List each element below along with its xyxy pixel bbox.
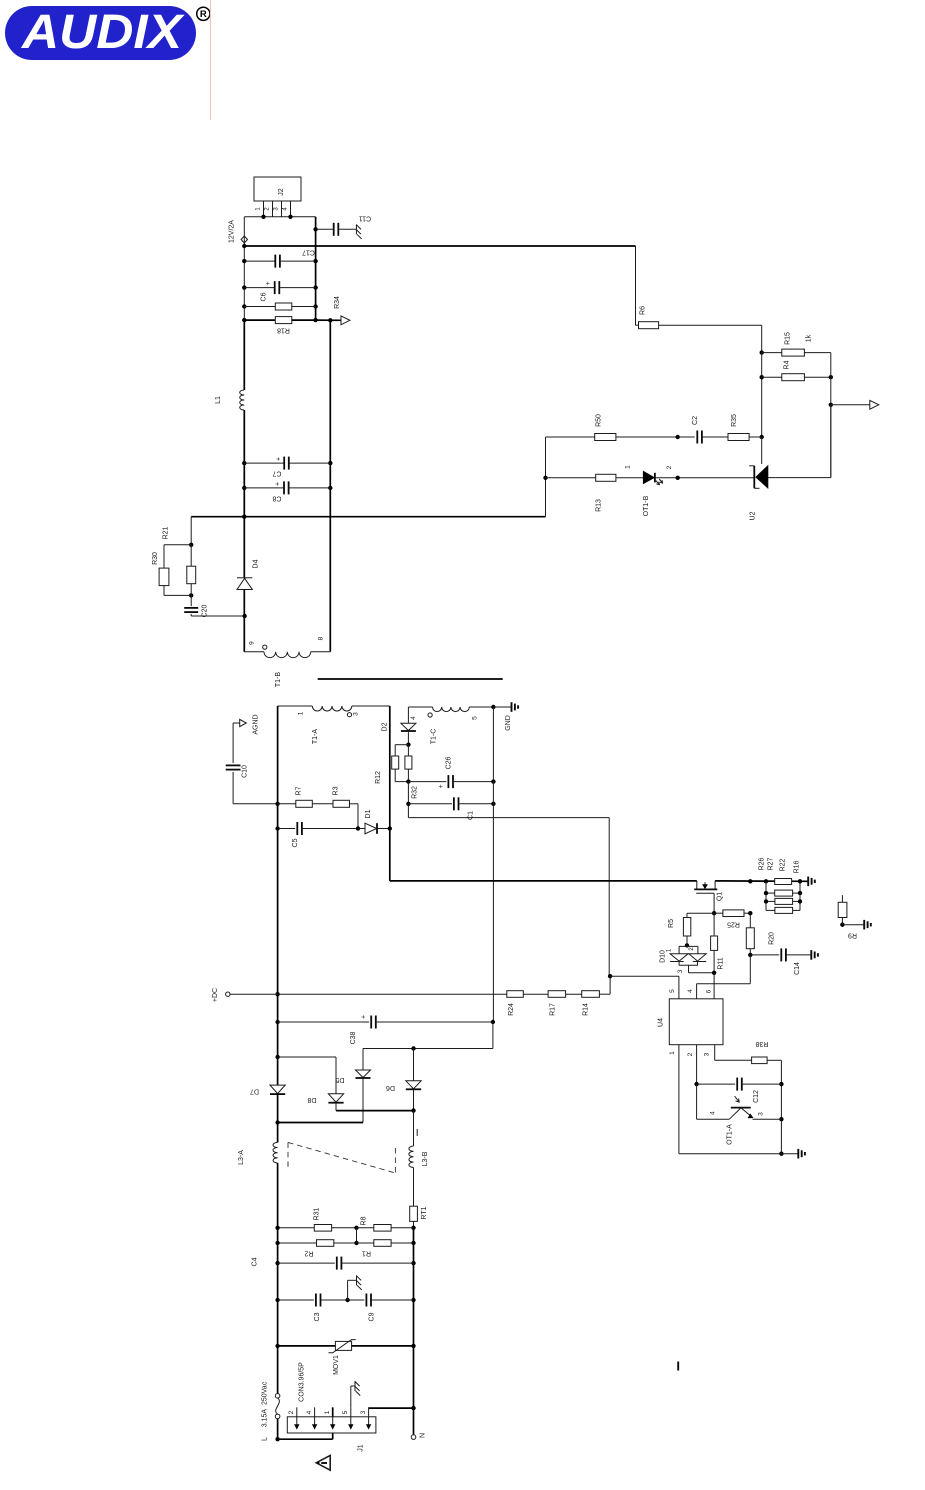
J1 pin 4 <box>306 1407 317 1429</box>
isolation barrier line <box>318 678 503 680</box>
svg-text:U4: U4 <box>658 1018 665 1027</box>
svg-text:C9: C9 <box>369 1312 376 1321</box>
net label 12V/2A <box>229 220 236 243</box>
capacitor C17 <box>244 249 315 268</box>
wire +DC row <box>230 993 507 995</box>
resistor R24 <box>507 991 524 1016</box>
OT1-B pin 1 label <box>625 465 632 469</box>
svg-text:5: 5 <box>471 716 478 720</box>
thermistor RT1 <box>410 1206 428 1230</box>
svg-text:R4: R4 <box>784 360 791 369</box>
wire left output rail upper <box>242 217 246 390</box>
wire R50 left vertical <box>543 437 547 517</box>
resistor R13 <box>546 474 644 512</box>
node L terminal <box>262 1437 269 1441</box>
earth ground at C3/C9 <box>357 1275 362 1290</box>
diode D4 <box>237 559 260 589</box>
capacitor C9 <box>348 1294 414 1322</box>
svg-text:C5: C5 <box>292 838 299 847</box>
diode D1 <box>358 809 392 833</box>
wire D4 to T1-B pin 9 <box>243 590 245 652</box>
transformer winding T1-A <box>278 706 390 744</box>
svg-text:R2: R2 <box>304 1250 313 1257</box>
svg-text:5: 5 <box>342 1410 349 1414</box>
resistor R7 <box>278 786 313 807</box>
varistor MOV1 <box>278 1340 414 1375</box>
svg-text:T1-A: T1-A <box>312 729 319 745</box>
wire gate RC branch <box>687 913 714 917</box>
ground at U4 pin1 <box>798 1149 805 1159</box>
svg-text:J1: J1 <box>358 1444 365 1452</box>
J1 pin 2 <box>288 1407 299 1429</box>
T1-B pin 9 label <box>249 641 256 645</box>
J1 pin 5 <box>342 1407 353 1429</box>
faint page fold line <box>210 0 212 120</box>
wire R9 to ground <box>842 924 864 926</box>
wire T1-C to GND <box>493 706 511 708</box>
svg-text:RT1: RT1 <box>421 1206 428 1219</box>
wire to off-page arrow <box>831 404 870 406</box>
svg-text:D10: D10 <box>660 950 667 963</box>
resistor R6 <box>636 306 659 329</box>
svg-text:2: 2 <box>288 1410 295 1414</box>
svg-text:D6: D6 <box>386 1084 395 1091</box>
inductor L1 <box>215 390 244 410</box>
svg-text:OT1-A: OT1-A <box>727 1124 734 1145</box>
diode D2 <box>382 707 416 747</box>
D10 pin 3 label <box>678 969 684 973</box>
diode D7 <box>250 1085 285 1094</box>
svg-text:R20: R20 <box>769 932 776 945</box>
svg-text:D7: D7 <box>250 1088 259 1095</box>
wire left rail EMI <box>275 1228 279 1394</box>
wire sense node vertical <box>829 353 833 478</box>
svg-text:1: 1 <box>669 1051 676 1055</box>
capacitor C26 <box>408 756 495 788</box>
OT1-A pin 3 label <box>758 1112 765 1116</box>
resistor R50 <box>546 414 680 441</box>
svg-text:C6: C6 <box>261 292 268 301</box>
svg-text:C17: C17 <box>302 249 315 256</box>
wire Y-cap ground stub <box>348 1280 357 1300</box>
resistor R32 <box>405 745 419 799</box>
wire secondary return vertical <box>328 320 332 652</box>
svg-text:D8: D8 <box>307 1096 316 1103</box>
svg-text:R17: R17 <box>550 1003 557 1016</box>
svg-text:R6: R6 <box>640 306 647 315</box>
wire fuse to L terminal <box>275 1419 279 1442</box>
capacitor C38 <box>278 1015 495 1044</box>
capacitor C12 <box>697 1078 782 1103</box>
svg-text:R11: R11 <box>718 957 725 969</box>
svg-text:R8: R8 <box>361 1216 368 1225</box>
T1-A pin 3 label <box>353 712 360 716</box>
wire ground return long <box>191 516 545 518</box>
shunt regulator U2 <box>749 466 768 521</box>
svg-text:1: 1 <box>625 465 632 469</box>
capacitor C2 <box>678 416 728 444</box>
svg-text:5: 5 <box>669 989 676 993</box>
wire drain line <box>390 880 697 882</box>
wire right output rail <box>313 217 317 322</box>
U4 pin 6 label <box>705 989 712 993</box>
wire T1-A pin3 to drain <box>389 706 391 881</box>
svg-text:R15: R15 <box>785 332 792 345</box>
svg-text:C20: C20 <box>202 604 209 617</box>
fuse F1 3.15A <box>262 1381 280 1427</box>
earth ground at C11 <box>356 224 361 239</box>
svg-text:AUDIX: AUDIX <box>21 6 185 59</box>
resistor R3 <box>312 786 358 828</box>
svg-text:R21: R21 <box>163 526 170 539</box>
svg-text:3: 3 <box>360 1410 367 1414</box>
svg-text:D4: D4 <box>253 559 260 568</box>
node N terminal <box>411 1433 426 1439</box>
svg-text:3: 3 <box>758 1112 765 1116</box>
resistor R8 <box>357 1216 414 1231</box>
svg-text:R30: R30 <box>152 552 159 565</box>
capacitor C14 <box>750 948 811 975</box>
wire primary rail <box>275 706 279 1085</box>
capacitor C10 <box>226 723 249 804</box>
R15 value 1k <box>806 334 813 342</box>
svg-text:T1-B: T1-B <box>275 672 282 688</box>
wire R6 to divider <box>659 325 764 355</box>
T1-C pin 4 label <box>410 716 417 720</box>
svg-text:OT1-B: OT1-B <box>643 495 650 516</box>
wire Q1 gate <box>712 893 716 915</box>
AUDIX logo <box>5 6 196 60</box>
T1-A pin 1 label <box>298 711 305 715</box>
svg-text:C14: C14 <box>794 962 801 975</box>
transformer winding T1-B <box>244 652 330 687</box>
wire C10 to rail <box>233 803 278 805</box>
wire R24-R17 <box>523 993 548 995</box>
wire R17-R14 <box>566 993 582 995</box>
capacitor C1 <box>408 797 495 820</box>
U4 pin 2 label <box>687 1052 694 1056</box>
wire C20 to D4 node <box>191 614 247 618</box>
svg-text:+: + <box>361 1015 368 1019</box>
stray mark <box>677 1362 679 1371</box>
svg-text:C1: C1 <box>468 811 475 820</box>
inductor L3-B <box>409 1111 429 1207</box>
wire U4 pin6 <box>713 973 715 999</box>
wire R38 down <box>767 1060 784 1156</box>
resistor R1 <box>357 1240 416 1257</box>
svg-text:Q1: Q1 <box>717 892 724 901</box>
wire R21 top node <box>189 517 193 547</box>
warning triangle <box>316 1455 330 1470</box>
svg-text:GND: GND <box>505 715 512 731</box>
off-page arrow feedback <box>870 400 879 409</box>
svg-text:R3: R3 <box>333 786 340 795</box>
svg-text:N: N <box>420 1433 427 1438</box>
svg-text:4: 4 <box>306 1410 313 1414</box>
T1-C polarity dot <box>428 713 432 717</box>
off-page arrow AGND <box>233 714 259 734</box>
wire 12V feedback line <box>244 245 635 247</box>
capacitor C6 <box>244 281 315 301</box>
logo registered trademark symbol <box>197 7 210 20</box>
resistor R16 <box>766 860 801 913</box>
wire aux supply drop <box>608 818 610 977</box>
svg-text:1: 1 <box>298 711 305 715</box>
svg-text:4: 4 <box>710 1111 717 1115</box>
resistor R21 <box>163 526 196 595</box>
resistor R18 <box>244 317 315 334</box>
node +DC terminal <box>212 988 230 1002</box>
J1 pin 3 <box>360 1407 371 1429</box>
capacitor C7 <box>244 457 330 477</box>
resistor R31 <box>275 1207 358 1231</box>
capacitor C4 <box>252 1257 414 1270</box>
svg-text:R9: R9 <box>848 932 857 939</box>
svg-text:L1: L1 <box>215 396 222 404</box>
T1-C pin 5 label <box>471 716 478 720</box>
wire R18 to arrow <box>316 318 341 322</box>
svg-text:R14: R14 <box>583 1003 590 1016</box>
wire rail to D4 <box>243 517 245 578</box>
svg-text:6: 6 <box>705 989 712 993</box>
D10 pin 1 label <box>667 948 673 952</box>
svg-text:R18: R18 <box>277 327 290 334</box>
svg-text:R35: R35 <box>731 414 738 427</box>
wire bank right vertical <box>798 879 802 910</box>
diode D5 <box>335 1049 370 1123</box>
svg-text:T1-C: T1-C <box>431 729 438 745</box>
svg-text:+: + <box>275 482 282 486</box>
resistor R4 <box>762 360 833 380</box>
choke core dashes <box>288 1142 395 1173</box>
svg-text:R5: R5 <box>668 919 675 928</box>
svg-text:4: 4 <box>687 989 694 993</box>
svg-text:3: 3 <box>353 712 360 716</box>
wire R30 branch top <box>164 545 191 568</box>
resistor R11 <box>711 913 725 975</box>
svg-text:+: + <box>265 281 272 285</box>
svg-text:C38: C38 <box>350 1031 357 1044</box>
wire J1 pin5 to earth <box>351 1386 355 1407</box>
resistor R38 <box>752 1040 769 1064</box>
svg-text:R13: R13 <box>596 499 603 512</box>
svg-text:R22: R22 <box>780 858 787 871</box>
svg-text:R32: R32 <box>412 786 419 799</box>
svg-text:C2: C2 <box>692 416 699 425</box>
svg-text:+: + <box>438 784 445 788</box>
svg-text:R25: R25 <box>727 921 740 928</box>
J1 pin 1 <box>324 1410 335 1429</box>
wire D8 to D6 node <box>336 1110 414 1112</box>
OT1-B pin 2 label <box>666 465 673 469</box>
wire D5 to rail <box>275 1120 363 1124</box>
resistor R26 <box>759 857 792 884</box>
svg-text:+DC: +DC <box>212 988 219 1002</box>
svg-text:1: 1 <box>324 1410 331 1414</box>
ground at sense bank <box>808 877 815 887</box>
wire Q1 source to bank <box>715 879 808 883</box>
svg-text:C8: C8 <box>272 495 281 502</box>
svg-text:CON3.96/5P: CON3.96/5P <box>299 1362 306 1402</box>
svg-text:3: 3 <box>703 1052 710 1056</box>
inductor L3-A <box>238 1142 278 1227</box>
U4 pin 5 label <box>669 989 676 993</box>
resistor R34 <box>244 296 341 310</box>
wire left rail to C7 <box>242 410 246 519</box>
resistor R5 <box>668 918 691 948</box>
resistor R12 <box>375 745 408 784</box>
wire C38 to rectifier node <box>363 1022 493 1051</box>
T1-A polarity dot <box>347 713 351 717</box>
svg-text:C3: C3 <box>314 1312 321 1321</box>
diode D8 <box>278 1057 344 1111</box>
earth ground at J1 <box>355 1381 360 1396</box>
transient suppressor D10 <box>660 946 715 972</box>
wire LED to U2 <box>655 476 754 480</box>
controller U4 <box>658 999 724 1045</box>
J2 pin 2 <box>265 201 273 217</box>
capacitor C8 <box>244 481 330 501</box>
svg-text:L3-A: L3-A <box>238 1150 245 1165</box>
wire aux supply horizontal <box>408 817 609 819</box>
svg-text:12V/2A: 12V/2A <box>229 220 236 243</box>
svg-text:1k: 1k <box>806 334 813 342</box>
D10 pin 2 label <box>689 947 695 951</box>
wire U2 ref <box>761 437 763 464</box>
resistor R20 <box>746 913 775 957</box>
svg-text:D5: D5 <box>335 1076 344 1083</box>
svg-text:R16: R16 <box>794 860 801 873</box>
svg-text:2: 2 <box>666 465 673 469</box>
ground GND bars <box>505 702 518 731</box>
svg-text:AGND: AGND <box>253 714 260 734</box>
svg-text:2: 2 <box>687 1052 694 1056</box>
svg-text:C12: C12 <box>753 1090 760 1103</box>
wire R31-R8 to R2-R1 link <box>356 1228 358 1243</box>
wire J1 pin3 to N <box>369 1407 414 1409</box>
OT1-A pin 4 label <box>710 1111 717 1115</box>
resistor R9 <box>838 895 857 938</box>
wire feedback drop to R6 <box>635 246 637 325</box>
wire secondary GND vertical <box>492 707 494 1022</box>
svg-text:R34: R34 <box>334 296 341 309</box>
resistor R14 <box>582 991 600 1016</box>
wire rail D7 to bridge bottom <box>277 1094 279 1142</box>
diode D6 <box>386 1049 421 1113</box>
capacitor C3 <box>278 1294 350 1322</box>
T1-B pin 8 label <box>317 636 324 640</box>
svg-text:D1: D1 <box>365 809 372 818</box>
ground at C14 <box>811 950 818 960</box>
connector J2 <box>254 177 301 201</box>
resistor R25 <box>714 910 752 928</box>
svg-text:4: 4 <box>410 716 417 720</box>
optocoupler transistor OT1-A <box>697 1084 782 1145</box>
connector J1 <box>287 1417 376 1452</box>
svg-text:9: 9 <box>249 641 256 645</box>
resistor R17 <box>548 991 566 1016</box>
resistor R15 <box>762 332 831 356</box>
resistor R27 <box>766 857 800 896</box>
svg-text:R27: R27 <box>768 857 775 870</box>
capacitor C5 <box>278 822 361 847</box>
U4 pin 4 label <box>687 989 694 993</box>
svg-text:R7: R7 <box>296 786 303 795</box>
wire bank left vertical <box>764 881 768 910</box>
wire divider mid vertical <box>760 353 764 440</box>
resistor R35 <box>728 414 762 441</box>
wire U4 pin2 <box>694 1045 698 1087</box>
wire R14 to Vcc node <box>599 974 612 994</box>
svg-text:C10: C10 <box>242 765 249 778</box>
svg-text:L: L <box>262 1437 269 1441</box>
off-page arrow right of R34 <box>341 316 350 325</box>
optocoupler LED OT1-B <box>643 471 663 516</box>
svg-text:8: 8 <box>317 636 324 640</box>
svg-text:+: + <box>276 457 283 461</box>
J2 pin 1 <box>256 201 264 217</box>
resistor R2 <box>275 1240 358 1257</box>
svg-text:R24: R24 <box>508 1003 515 1016</box>
J1 label CON3.96/5P <box>299 1362 306 1402</box>
ground at R9 <box>864 920 871 930</box>
svg-text:R1: R1 <box>362 1250 371 1257</box>
wire U4 pin4 route <box>697 955 751 999</box>
wire right rail EMI <box>411 1228 415 1435</box>
resistor R22 <box>766 858 800 904</box>
T1-B polarity dot <box>263 645 267 649</box>
capacitor C20 <box>184 595 208 617</box>
capacitor C11 <box>316 215 372 236</box>
U4 pin 3 label <box>703 1052 710 1056</box>
wire Vcc to U4 pin5 <box>610 976 679 999</box>
svg-text:U2: U2 <box>750 511 757 520</box>
wire U4 pin1 to ground <box>679 1045 798 1154</box>
svg-text:R12: R12 <box>375 771 382 784</box>
wire R32 node down <box>406 782 410 818</box>
svg-text:MOV1: MOV1 <box>333 1355 340 1375</box>
node 12V diamond marker <box>241 236 247 243</box>
svg-text:D2: D2 <box>382 722 389 731</box>
svg-text:C26: C26 <box>446 756 453 769</box>
svg-text:R26: R26 <box>759 857 766 870</box>
transformer winding T1-C <box>408 705 495 744</box>
svg-text:R38: R38 <box>755 1040 768 1047</box>
J2 pin 3 <box>274 201 282 217</box>
svg-text:J2: J2 <box>278 188 285 196</box>
svg-text:R50: R50 <box>596 414 603 427</box>
J2 pin 4 <box>283 201 291 217</box>
svg-text:C4: C4 <box>252 1257 259 1266</box>
svg-text:C11: C11 <box>359 215 371 222</box>
wire U2 anode <box>768 405 831 478</box>
wire J2 output rail <box>244 215 315 219</box>
wire U4 pin3 route <box>715 1045 752 1061</box>
svg-text:L3-B: L3-B <box>422 1151 429 1166</box>
resistor R30 <box>152 552 169 586</box>
wire L to J1 pin1 <box>278 1407 333 1439</box>
svg-text:R: R <box>200 9 207 20</box>
svg-text:R31: R31 <box>314 1207 321 1220</box>
U4 pin 1 label <box>669 1051 676 1055</box>
svg-text:3.15A 250Vac: 3.15A 250Vac <box>262 1381 269 1427</box>
svg-text:C7: C7 <box>272 470 281 477</box>
wire R30 branch bottom <box>164 586 193 598</box>
mosfet Q1 <box>694 881 723 901</box>
